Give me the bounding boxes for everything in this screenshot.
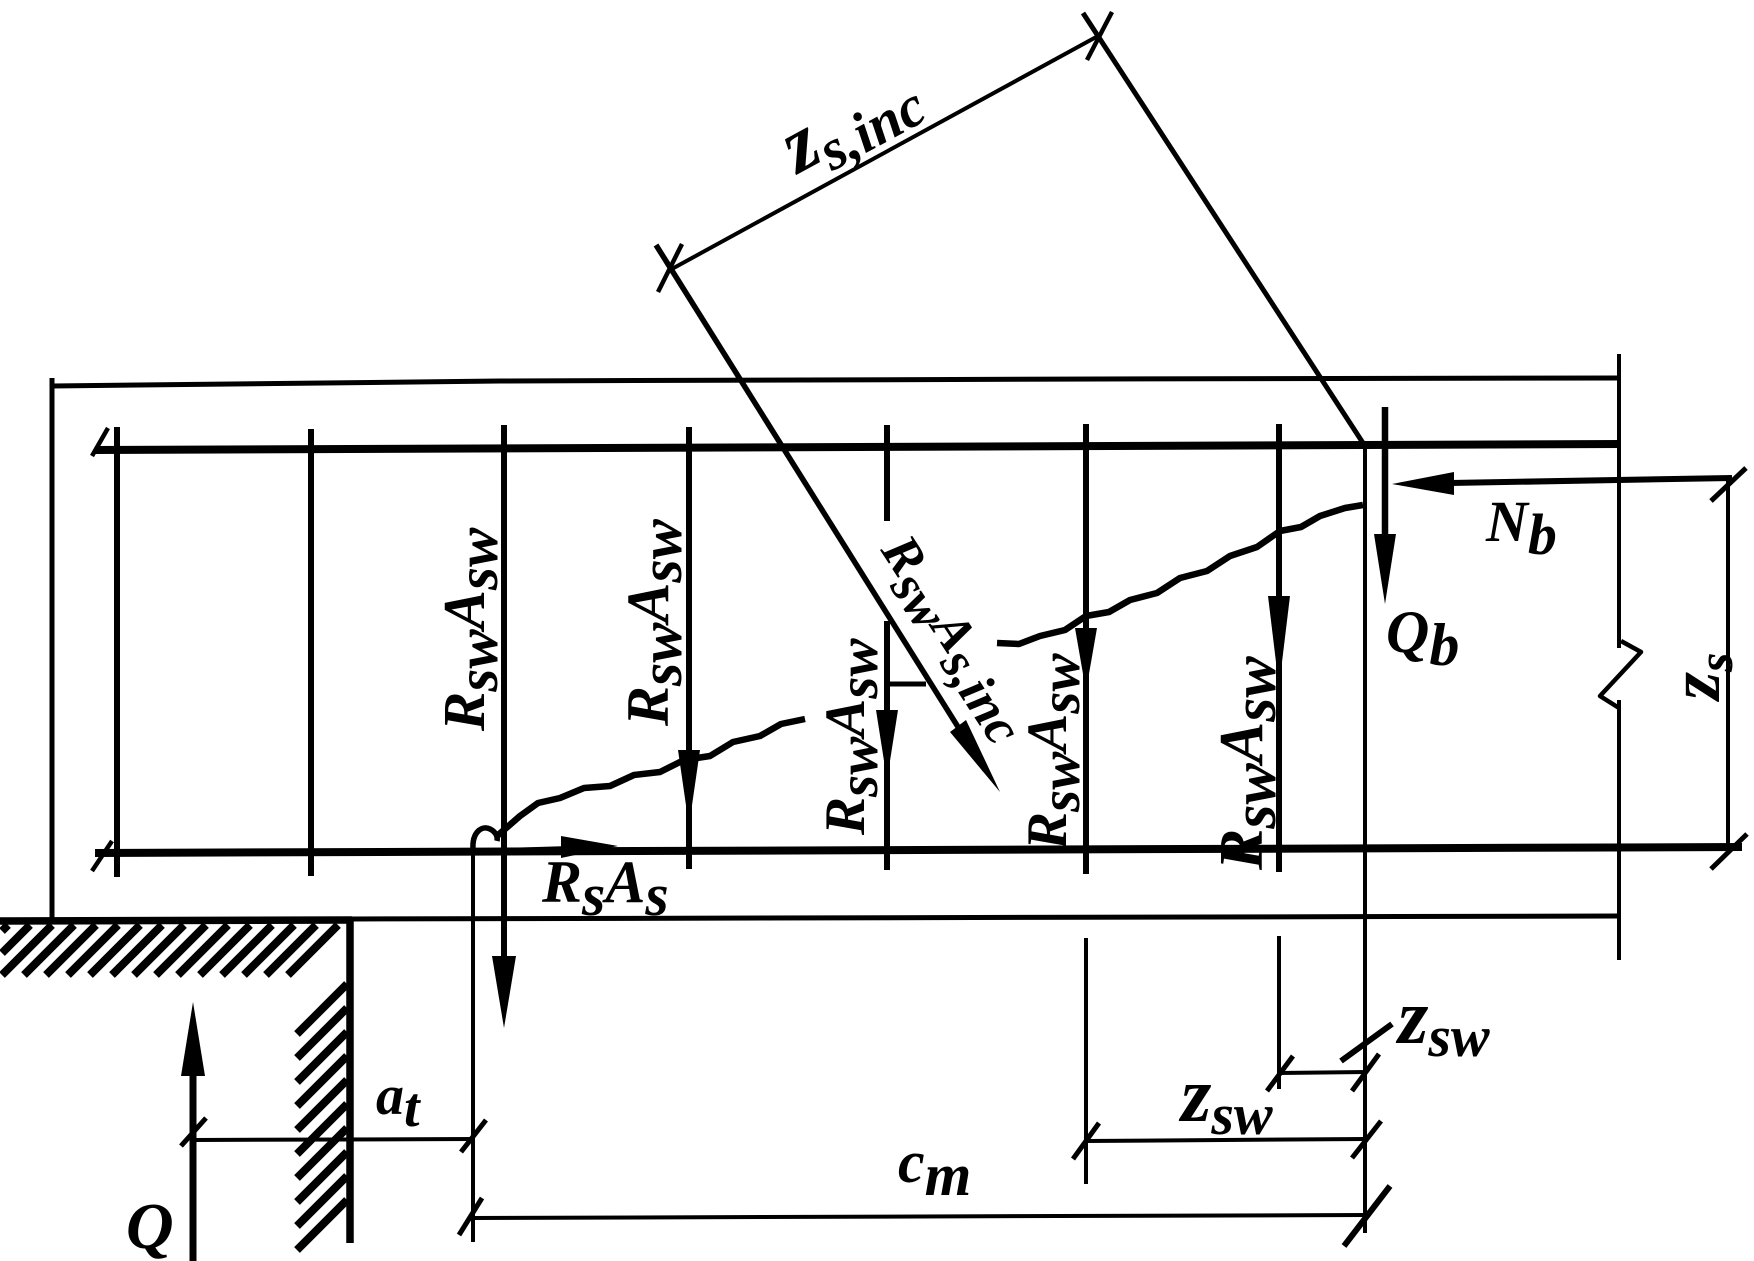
beam left edge [50, 378, 55, 922]
inclined bar axis line B [1083, 13, 1363, 443]
bottom longitudinal rebar [95, 847, 1742, 853]
c_m right tick [1344, 1186, 1390, 1246]
tick connecting stirrup S5 to inclined bar [887, 682, 926, 687]
z_s bottom tick [1711, 834, 1747, 869]
extension line below stirrup S7 [1277, 936, 1281, 1089]
beam right cut line lower [1617, 700, 1621, 960]
dimension line c_m [473, 1215, 1366, 1218]
z_sw lower right tick [1352, 1121, 1381, 1158]
dimension line z_sw lower [1086, 1139, 1366, 1141]
inclined crack start hook [473, 828, 497, 849]
beam break mark [1600, 641, 1641, 708]
top rebar left end tick [92, 428, 108, 456]
beam bottom edge [350, 916, 1620, 919]
extension line below crack start [471, 838, 475, 1242]
support vertical edge [346, 920, 354, 1243]
z_sw lower left tick [1073, 1123, 1099, 1159]
extension line below stirrup S6 [1084, 938, 1088, 1184]
beam right cut line upper [1617, 354, 1621, 648]
z_sw upper right tick [1352, 1054, 1379, 1091]
inclined crack lower segment [497, 719, 805, 836]
stirrup S7 with force arrow R_swA_sw [1276, 424, 1282, 872]
z_s top tick [1711, 468, 1746, 501]
support hatching vertical band [297, 984, 347, 1250]
a_t right tick [461, 1120, 486, 1152]
support reaction arrow Q [190, 1050, 197, 1261]
stirrup S6 with force arrow R_swA_sw [1083, 424, 1089, 874]
dimension line z_sw upper [1279, 1072, 1366, 1073]
extension line at crack top [1363, 447, 1367, 1233]
stirrup S3 with force arrow R_swA_sw [501, 425, 507, 965]
force arrow N_b [1450, 478, 1732, 483]
stirrup S2 [308, 429, 314, 876]
force arrow R_sA_s on bottom rebar [506, 849, 570, 851]
support hatching top band [2, 925, 338, 975]
top longitudinal rebar [95, 444, 1621, 450]
dimension line z_s [1726, 481, 1730, 852]
bottom rebar left end tick [92, 841, 112, 871]
stirrup S4 with force arrow R_swA_sw [686, 427, 692, 869]
a_t left tick [181, 1118, 206, 1146]
z_sw upper label leader slash [1341, 1024, 1392, 1061]
z_sw upper left tick [1267, 1056, 1293, 1091]
stirrup S5 with force arrow R_swA_sw [884, 425, 890, 521]
dimension line z_s,inc [670, 36, 1098, 270]
z_s,inc right tick [1087, 12, 1112, 60]
svg-text:Q: Q [126, 1190, 174, 1261]
inclined bar force arrow R_swA_s,inc [656, 245, 985, 770]
beam top edge [52, 378, 1621, 386]
inclined crack upper segment [997, 505, 1363, 644]
z_s,inc left tick [658, 244, 682, 292]
dimension line a_t [193, 1139, 473, 1140]
support surface [0, 920, 352, 921]
c_m left tick [459, 1198, 482, 1235]
force arrow Q_b [1382, 407, 1389, 545]
stirrup S1 [114, 427, 120, 877]
